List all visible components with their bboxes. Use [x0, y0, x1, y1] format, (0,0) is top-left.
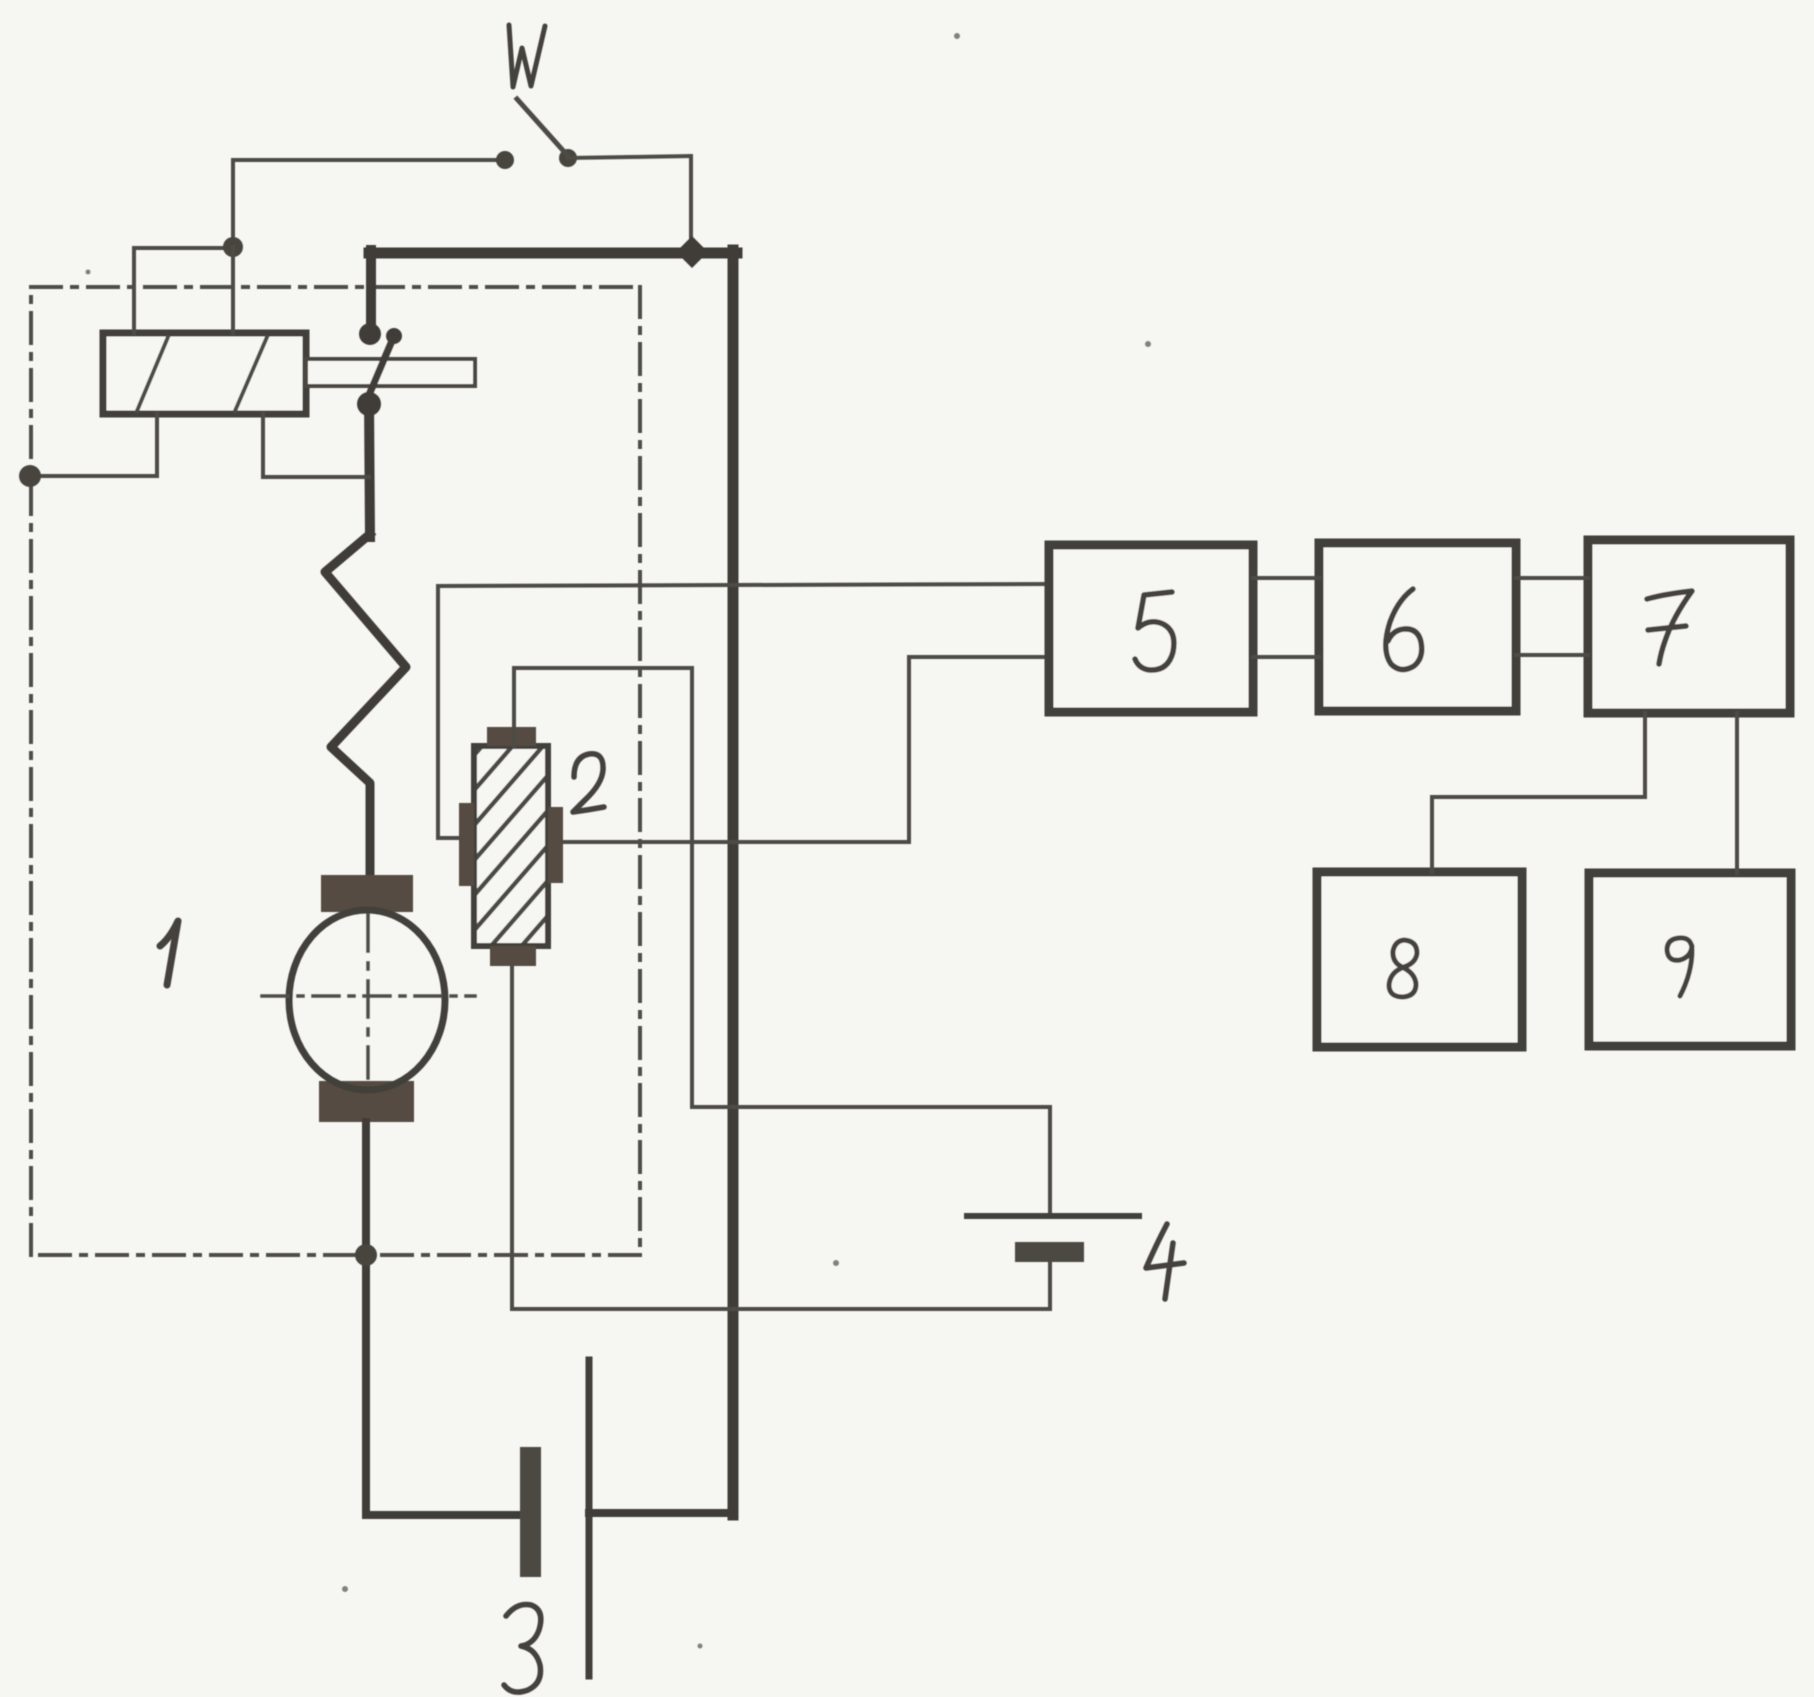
wire: switch to right bend	[568, 156, 691, 158]
label 4	[1146, 1224, 1184, 1299]
label 9	[1667, 938, 1692, 996]
wire: box5-box6 upper	[1253, 576, 1319, 580]
wire: coil bottom-left stub	[30, 414, 157, 476]
wire: box5-box6 lower	[1253, 655, 1319, 659]
node: coil junction dot	[223, 237, 243, 257]
node: dot on frame boundary	[19, 465, 41, 487]
box 8	[1317, 872, 1522, 1047]
wire: switch feed from coil junction	[233, 158, 505, 162]
wire: coil bottom-right stub	[263, 414, 369, 477]
label 6	[1386, 589, 1422, 670]
wire: motor to bottom	[362, 1122, 370, 1515]
motor centerline horizontal	[262, 994, 475, 998]
sensor 2 top pad	[487, 727, 536, 746]
wire: down from switch to bus	[689, 156, 693, 244]
label 5	[1135, 592, 1174, 670]
sensor 2 left pad	[459, 803, 474, 886]
enclosure dash-dot boundary (machine frame)	[31, 287, 640, 1255]
wire: coil top-right stub	[231, 247, 235, 333]
sensor 2 body (hatched)	[474, 746, 548, 946]
box 5	[1049, 545, 1253, 712]
label 8	[1389, 940, 1417, 997]
wire: coil top-left stub	[132, 248, 136, 333]
battery 3 long plate (positive)	[586, 1360, 593, 1676]
motor 1 body circle	[289, 910, 445, 1090]
thick bus wire horizontal top	[369, 248, 737, 259]
relay coil K (solenoid)	[103, 333, 306, 414]
wire: box6-box7 upper	[1516, 576, 1588, 580]
label 3	[504, 1604, 541, 1692]
battery 3 short plate (negative)	[520, 1447, 541, 1577]
wire: bottom run to battery 3	[366, 1511, 524, 1519]
coil diagonal 1	[137, 337, 168, 411]
wire: box7 to box9	[1735, 713, 1739, 873]
label 7	[1647, 591, 1692, 664]
battery 4 long plate	[967, 1213, 1139, 1219]
sensor 2 right pad	[548, 807, 563, 883]
motor 1 bottom brush pad	[319, 1081, 414, 1122]
label 1	[160, 921, 178, 985]
wire: box6-box7 lower	[1516, 653, 1588, 657]
wire: box7 to box8	[1432, 713, 1645, 872]
wire: battery 3 to thick bus	[589, 1509, 733, 1517]
resistor (zigzag)	[325, 534, 406, 877]
scan specks	[86, 33, 1152, 1649]
switch W throw contact	[559, 149, 577, 167]
relay plunger bar	[306, 359, 475, 386]
wire: sensor top to battery 4 top	[514, 668, 1050, 1214]
switch W pole contact	[496, 151, 514, 169]
wire: top stub link	[134, 246, 233, 250]
switch W blade	[517, 99, 568, 156]
contact node upper	[359, 323, 381, 345]
wire: sensor right electrode to box5 (lower)	[562, 657, 1049, 842]
contact node lower	[357, 392, 381, 416]
label 2	[573, 754, 604, 812]
box 6	[1319, 543, 1516, 711]
node: dot at frame bottom	[355, 1244, 377, 1266]
battery 4 short thick plate	[1015, 1242, 1084, 1262]
junction diamond node	[676, 236, 708, 268]
contact arm diagonal	[366, 336, 394, 402]
sensor 2 bottom pad	[490, 946, 536, 966]
thick bus wire right vertical	[728, 250, 739, 1515]
label W	[509, 25, 545, 87]
motor 1 top brush pad	[321, 875, 413, 912]
box 7	[1588, 540, 1790, 713]
wire: sensor bottom to battery 4 bottom	[512, 966, 1050, 1309]
box 9	[1589, 873, 1791, 1046]
motor centerline vertical	[366, 915, 370, 1078]
wire: vertical from switch wire to junction	[231, 160, 235, 247]
coil diagonal 2	[235, 337, 267, 411]
wire: sensor left electrode to box5 (upper)	[438, 584, 1049, 838]
thick wire left vertical (relay armature line)	[366, 250, 376, 336]
